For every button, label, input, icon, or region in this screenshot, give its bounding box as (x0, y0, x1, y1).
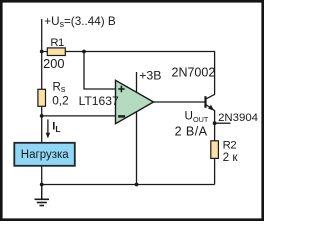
wire: R1 right node down to op-amp + input (84, 52, 116, 90)
svg-text:2 В/А: 2 В/А (175, 124, 208, 138)
svg-text:0,2: 0,2 (52, 94, 68, 108)
wire: Rs bottom node to op-amp - input (42, 115, 116, 117)
base bar (204, 96, 206, 108)
transistor Q1 body (206, 94, 215, 110)
wire: 2N3904 leader line (215, 122, 231, 124)
ground (35, 185, 50, 206)
op-amp + input marking (118, 86, 124, 92)
svg-text:R1: R1 (50, 37, 64, 49)
load box (Нагрузка) (14, 143, 75, 166)
svg-text:Нагрузка: Нагрузка (21, 149, 69, 161)
svg-text:2N3904: 2N3904 (218, 112, 258, 124)
wire: op-amp V- down to bottom rail (136, 110, 138, 185)
svg-text:200: 200 (43, 56, 64, 71)
node: Uout junction (213, 121, 217, 125)
border frame (1, 1, 262, 219)
resistor R1 (47, 48, 65, 56)
wire: bottom ground rail (42, 184, 215, 186)
node: R1 left junction (40, 50, 44, 54)
svg-text:2 к: 2 к (223, 150, 239, 164)
node: ground junction (40, 183, 44, 187)
resistor R2 (211, 141, 219, 159)
wire: left rail below Rs to load box (41, 106, 43, 144)
op-amp U1 LT1637 (116, 80, 154, 123)
current arrow IL (46, 119, 61, 138)
node: opamp V- ground junction (135, 183, 139, 187)
svg-text:Rs: Rs (53, 81, 66, 94)
collector diagonal (206, 94, 215, 99)
wire: emitter vertical down through Uout node to R2 (214, 110, 216, 141)
svg-text:+Us=(3..44) В: +Us=(3..44) В (44, 15, 116, 29)
wire: op-amp output to transistor base (152, 101, 205, 103)
emitter arrowhead (208, 105, 214, 111)
node: R1 right junction (82, 50, 86, 54)
emitter diagonal (206, 104, 215, 110)
svg-text:LT1637: LT1637 (79, 94, 119, 108)
svg-text:+3В: +3В (139, 69, 161, 83)
node: Rs bottom junction (40, 114, 44, 118)
wire: R2 bottom to bottom rail (214, 158, 216, 185)
resistor Rs (38, 89, 46, 106)
wire: left supply rail vertical (41, 19, 43, 90)
svg-text:2N7002: 2N7002 (172, 65, 216, 79)
op-amp - input marking (118, 115, 125, 117)
wire: load box bottom to ground node (41, 166, 43, 200)
wire: top horizontal rail from R1 to collector corner (42, 52, 215, 95)
wire: op-amp V+ supply stub (136, 72, 138, 94)
